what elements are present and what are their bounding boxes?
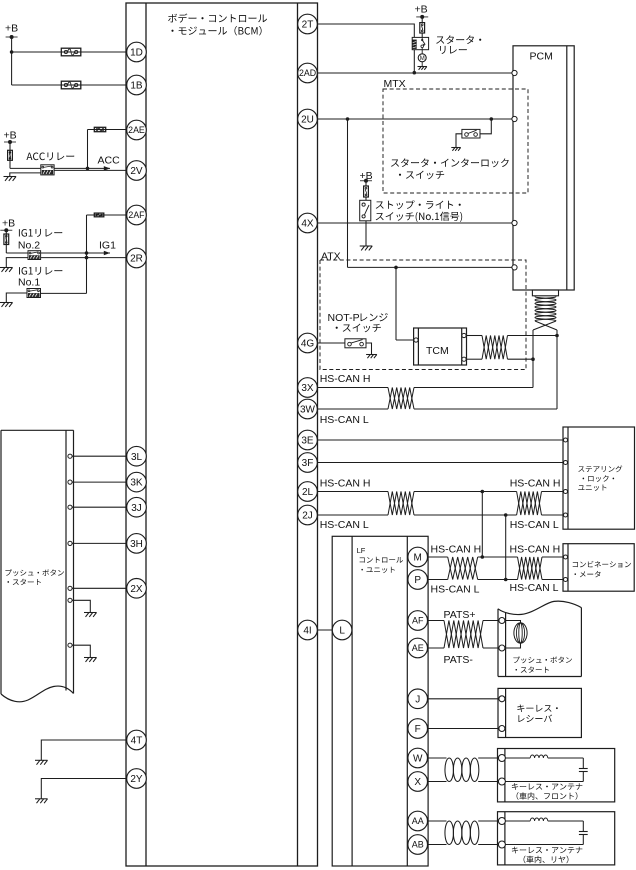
svg-text:2U: 2U	[301, 115, 314, 126]
svg-text:3L: 3L	[131, 452, 143, 463]
svg-text:M: M	[420, 56, 425, 62]
svg-text:No.2: No.2	[18, 240, 40, 252]
svg-text:HS-CAN L: HS-CAN L	[320, 414, 369, 426]
svg-text:AA: AA	[412, 816, 424, 826]
svg-text:PCM: PCM	[530, 51, 553, 63]
svg-text:+B: +B	[5, 23, 18, 35]
svg-text:W: W	[413, 754, 423, 765]
svg-text:HS-CAN H: HS-CAN H	[431, 544, 482, 556]
svg-text:3X: 3X	[301, 383, 314, 394]
svg-text:+B: +B	[4, 130, 17, 142]
svg-text:1B: 1B	[130, 81, 143, 92]
svg-text:4X: 4X	[301, 219, 314, 230]
svg-text:HS-CAN L: HS-CAN L	[320, 519, 369, 531]
svg-text:HS-CAN L: HS-CAN L	[510, 582, 559, 594]
svg-text:3F: 3F	[302, 458, 314, 469]
svg-text:4T: 4T	[131, 736, 143, 747]
svg-text:ACC: ACC	[98, 155, 121, 167]
svg-text:AF: AF	[412, 616, 424, 626]
svg-text:M: M	[414, 553, 422, 564]
svg-text:2AE: 2AE	[128, 125, 145, 135]
svg-text:HS-CAN L: HS-CAN L	[431, 584, 480, 596]
svg-text:X: X	[414, 777, 421, 788]
svg-text:PATS-: PATS-	[444, 654, 474, 666]
svg-text:J: J	[415, 694, 420, 705]
svg-text:F: F	[415, 724, 421, 735]
svg-text:LF: LF	[357, 546, 366, 555]
svg-text:2R: 2R	[130, 254, 143, 265]
svg-text:2X: 2X	[130, 584, 143, 595]
svg-text:+B: +B	[2, 218, 15, 230]
svg-text:L: L	[339, 626, 345, 637]
svg-text:IG1: IG1	[99, 240, 116, 252]
svg-text:3W: 3W	[300, 405, 316, 416]
svg-text:No.1: No.1	[18, 277, 40, 289]
svg-text:MTX: MTX	[384, 78, 406, 90]
svg-text:HS-CAN L: HS-CAN L	[510, 519, 559, 531]
svg-text:PATS+: PATS+	[444, 609, 476, 621]
svg-text:AE: AE	[412, 643, 424, 653]
svg-text:3H: 3H	[130, 539, 143, 550]
svg-text:HS-CAN H: HS-CAN H	[320, 373, 371, 385]
svg-text:1D: 1D	[130, 48, 143, 59]
svg-text:NOT-P: NOT-P	[328, 312, 360, 324]
svg-text:TCM: TCM	[426, 345, 449, 357]
svg-text:HS-CAN H: HS-CAN H	[320, 478, 371, 490]
svg-text:2T: 2T	[302, 20, 314, 31]
svg-text:2V: 2V	[130, 166, 143, 177]
svg-text:HS-CAN H: HS-CAN H	[510, 478, 561, 490]
svg-text:ATX: ATX	[321, 251, 341, 263]
svg-text:+B: +B	[415, 4, 428, 16]
svg-text:2J: 2J	[302, 511, 313, 522]
svg-text:P: P	[414, 575, 421, 586]
svg-text:2AF: 2AF	[128, 210, 145, 220]
svg-text:HS-CAN H: HS-CAN H	[510, 544, 561, 556]
svg-text:3J: 3J	[131, 503, 142, 514]
svg-text:3E: 3E	[301, 436, 314, 447]
svg-text:+B: +B	[360, 170, 373, 182]
svg-text:2Y: 2Y	[130, 774, 143, 785]
svg-text:2AD: 2AD	[299, 68, 316, 78]
svg-text:2L: 2L	[302, 487, 314, 498]
svg-text:AB: AB	[412, 840, 424, 850]
svg-text:4I: 4I	[303, 626, 311, 637]
svg-text:3K: 3K	[130, 478, 143, 489]
svg-text:4G: 4G	[301, 339, 315, 350]
